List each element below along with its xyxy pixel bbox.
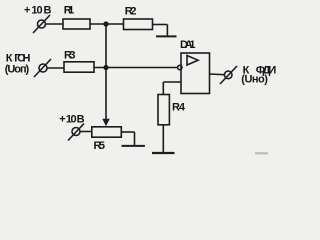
svg-text:DA1: DA1 (180, 39, 196, 51)
svg-text:+ 10 В: + 10 В (59, 114, 84, 126)
svg-text:R5: R5 (94, 140, 106, 152)
svg-text:R4: R4 (172, 102, 186, 114)
svg-text:R1: R1 (64, 4, 74, 16)
svg-text:+ 10 В: + 10 В (24, 4, 52, 16)
svg-text:(Uоп): (Uоп) (5, 64, 30, 76)
svg-text:(Uно): (Uно) (241, 74, 268, 86)
svg-text:R3: R3 (64, 50, 76, 62)
svg-text:R2: R2 (125, 6, 137, 18)
